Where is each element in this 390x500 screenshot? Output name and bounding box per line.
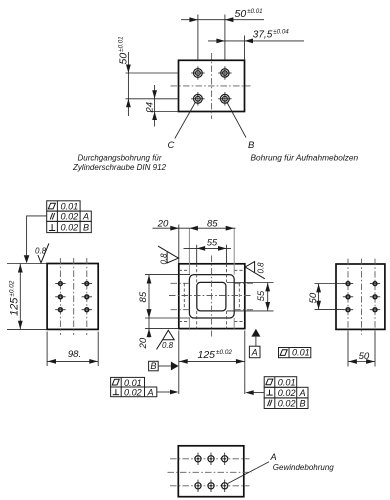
extension line top hole row [126, 72, 179, 74]
bottom view threaded holes row 1 [195, 453, 228, 465]
hidden step line bottom-left strip [179, 320, 190, 322]
dimension 50 bottom right view [348, 351, 375, 364]
svg-text:20: 20 [138, 337, 149, 349]
hidden 55 pocket edge bottom-right [226, 311, 228, 329]
svg-text:85: 85 [138, 291, 149, 302]
leader C [175, 102, 196, 139]
dimension 50 vertical right view [308, 284, 321, 310]
parallelism 0.02 A row [50, 212, 89, 222]
svg-text:Durchgangsbohrung für: Durchgangsbohrung für [77, 154, 161, 163]
dimension 20 bottom-left vertical [138, 310, 151, 350]
extension lines 125 dim left view [7, 263, 47, 265]
extension lines 50 bottom right view [347, 332, 349, 367]
dimension 85 vertical [138, 275, 151, 318]
right view holes [343, 281, 380, 313]
side hole centerline row3 left [171, 309, 190, 311]
feature control frame bottom-right [264, 377, 308, 409]
flatness frame 0.01 right [279, 348, 311, 358]
svg-text:0.8: 0.8 [159, 253, 168, 265]
svg-text:0.8: 0.8 [256, 262, 265, 274]
side hole centerline row1 left [171, 282, 190, 284]
hidden 55 pocket edge bottom-left [196, 311, 198, 329]
left view centerline column 2 [86, 258, 88, 335]
svg-text:Zylinderschraube DIN 912: Zylinderschraube DIN 912 [72, 163, 166, 172]
hole B2 bottom-right [218, 92, 231, 105]
left view holes [55, 281, 92, 313]
bottom view threaded holes row 2 [195, 480, 228, 492]
dimension 55 top [184, 238, 232, 251]
surface finish 0.8 bottom [157, 330, 175, 350]
hidden drill depth right [238, 283, 240, 309]
svg-text:55: 55 [207, 238, 218, 248]
dimension 50 ±0.01 horizontal [181, 8, 264, 22]
right view middle centerline [361, 259, 363, 335]
surface finish 0.8 top-right [245, 262, 265, 279]
dimension 125 ±0.02 bottom [179, 349, 245, 364]
svg-text:A: A [147, 387, 154, 397]
bottom view centerline row 1 [170, 458, 250, 460]
extension line bottom hole row [126, 98, 179, 100]
svg-text:50±0.01: 50±0.01 [118, 36, 130, 64]
svg-text:50±0.01: 50±0.01 [235, 8, 263, 20]
hole B1 top-right [218, 66, 231, 79]
hidden drill depth left [183, 283, 185, 309]
svg-text:50: 50 [359, 351, 370, 362]
extension lines 85 vertical [145, 274, 190, 276]
right view outline [336, 264, 385, 329]
datum B triangle [171, 362, 179, 371]
extension line left hole column [197, 15, 199, 61]
pocket 55 square [197, 282, 226, 311]
top view horizontal centerline [171, 85, 251, 87]
svg-text:0.01: 0.01 [124, 378, 142, 388]
svg-text:0.01: 0.01 [292, 348, 310, 358]
side hole centerline row3 right [234, 309, 253, 311]
svg-text:B: B [248, 140, 255, 151]
pocket wall edge top-right [233, 228, 235, 274]
svg-text:0.02: 0.02 [278, 388, 296, 398]
dimension 125 ±0.02 left view [8, 264, 22, 330]
datum A box [249, 346, 260, 358]
left view centerline column 1 [59, 258, 61, 335]
svg-text:0.01: 0.01 [278, 378, 296, 388]
svg-text:50: 50 [308, 292, 319, 303]
svg-text:A: A [251, 348, 258, 358]
extension line right edge [244, 36, 246, 61]
counterbore hole C1 top-left [191, 66, 204, 79]
svg-text:0.02: 0.02 [278, 399, 296, 409]
bottom view middle centerline [168, 471, 252, 473]
top view outline [179, 60, 245, 111]
center horizontal centerline [169, 295, 251, 297]
dimension 98 [47, 349, 98, 364]
extension 55 right up [226, 245, 228, 264]
dimension 37,5 ±0.04 [208, 29, 304, 44]
leader from frame to top face [27, 216, 47, 262]
svg-text:0.01: 0.01 [61, 201, 79, 211]
extension left edge up [178, 225, 180, 264]
svg-text:85: 85 [207, 218, 218, 229]
svg-text:B: B [83, 223, 89, 233]
surface finish 0.8 left view [35, 243, 49, 262]
dimension 20 and 85 top [153, 218, 236, 230]
svg-text:37,5±0.04: 37,5±0.04 [253, 29, 289, 41]
svg-text:98.: 98. [68, 349, 81, 360]
hidden 55 pocket edge top-left [196, 264, 198, 283]
center vertical centerline [211, 256, 213, 337]
leader bottom-right frame [245, 390, 264, 395]
feature control frame left: flatness 0.01 [47, 201, 92, 233]
extension 125 dim right down [244, 331, 246, 395]
leader B [227, 102, 246, 138]
dimension 50 ±0.01 vertical [118, 36, 131, 116]
datum B box [149, 361, 171, 371]
left view middle centerline [73, 258, 75, 335]
svg-text:C: C [168, 140, 175, 151]
leader bottom-left frame [157, 390, 179, 395]
svg-text:0.02: 0.02 [124, 387, 142, 397]
pocket wall edge bottom-right [233, 318, 235, 329]
svg-text:A: A [270, 452, 277, 462]
top view vertical centerline [211, 53, 213, 119]
svg-text:0.8: 0.8 [35, 247, 47, 256]
surface finish 0.8 top-left [158, 246, 178, 264]
svg-text:0.02: 0.02 [61, 212, 79, 222]
hidden step line top-left strip [179, 269, 190, 271]
svg-text:55: 55 [255, 290, 266, 301]
extension lines 50 vertical right view [315, 283, 344, 285]
svg-text:A: A [299, 388, 306, 398]
hidden 55 pocket edge top-right [226, 264, 228, 283]
datum A triangle [251, 329, 260, 346]
extension bottom edge left [145, 328, 179, 330]
svg-text:B: B [300, 399, 306, 409]
extension line right hole column [224, 15, 226, 61]
hidden step line top-right strip [234, 269, 245, 271]
pocket wall edge top-left [188, 228, 190, 274]
perpendicularity 0.02 B row [49, 223, 89, 233]
bottom view outline [178, 446, 244, 497]
left view outline [47, 264, 98, 330]
svg-text:0.02: 0.02 [61, 223, 79, 233]
hidden step line bottom-right strip [234, 320, 245, 322]
pocket 85 square [189, 275, 234, 318]
counterbore hole C2 bottom-left [191, 92, 204, 105]
pocket wall edge bottom-left [188, 318, 190, 329]
extension 55 left up [196, 245, 198, 264]
extension lines 98 dim [46, 332, 48, 367]
svg-text:Bohrung für Aufnahmebolzen: Bohrung für Aufnahmebolzen [251, 153, 359, 163]
extension line bottom edge [147, 111, 179, 113]
svg-text:A: A [82, 212, 89, 222]
feature control frame bottom-left [111, 377, 157, 397]
svg-text:Gewindebohrung: Gewindebohrung [273, 463, 334, 472]
leader A Gewindebohrung [228, 462, 269, 484]
extension lines 55 vertical right [227, 282, 274, 284]
svg-text:B: B [150, 361, 156, 371]
dimension 55 vertical right [255, 283, 270, 311]
right view centerline column 1 [347, 259, 349, 335]
extension 125 dim left down [178, 331, 180, 395]
svg-text:20: 20 [157, 218, 169, 229]
svg-text:24: 24 [145, 102, 156, 114]
svg-text:0.8: 0.8 [162, 341, 174, 350]
dimension 24 [145, 85, 157, 127]
svg-text:125±0.02: 125±0.02 [198, 349, 233, 361]
svg-text:125±0.02: 125±0.02 [8, 280, 20, 316]
right view centerline column 2 [374, 259, 376, 335]
side hole centerline row1 right [234, 282, 253, 284]
center view outer square [179, 264, 245, 329]
bottom view centerline row 2 [170, 485, 250, 487]
